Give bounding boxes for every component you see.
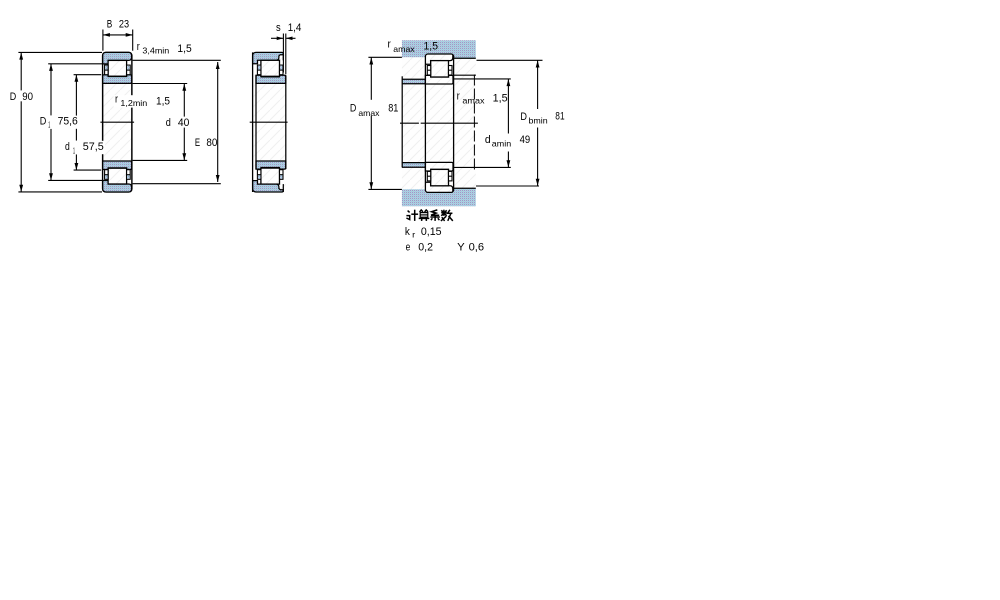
roller bottom bbox=[261, 168, 280, 184]
label damin 49 bbox=[484, 134, 513, 148]
svg-text:r: r bbox=[115, 93, 118, 105]
shaft shoulder face line bbox=[401, 76, 403, 167]
D arrows bbox=[19, 53, 23, 60]
inner ring top (blue) bbox=[256, 75, 286, 83]
svg-text:d: d bbox=[485, 134, 491, 146]
svg-text:B: B bbox=[107, 19, 113, 31]
svg-text:0,6: 0,6 bbox=[469, 241, 485, 253]
svg-text:r: r bbox=[137, 41, 140, 53]
label r1,2min 1,5 bbox=[114, 95, 172, 107]
d dim bbox=[183, 84, 185, 117]
svg-text:90: 90 bbox=[22, 91, 33, 103]
housing bottom band (blue) bbox=[402, 188, 476, 206]
svg-text:3,4min: 3,4min bbox=[142, 45, 169, 55]
D1 dim bbox=[50, 64, 52, 116]
svg-text:57,5: 57,5 bbox=[83, 141, 104, 153]
svg-text:81: 81 bbox=[555, 111, 564, 123]
svg-text:1: 1 bbox=[48, 120, 50, 130]
cage boxes bottom bbox=[257, 170, 261, 180]
label d1 57,5 bbox=[64, 141, 105, 154]
svg-text:40: 40 bbox=[178, 117, 190, 129]
Damax bbox=[370, 58, 372, 100]
svg-text:49: 49 bbox=[520, 134, 531, 146]
svg-text:Y: Y bbox=[457, 241, 465, 253]
svg-text:1,5: 1,5 bbox=[424, 41, 439, 53]
D dim bbox=[20, 53, 22, 91]
d1 dim bbox=[75, 75, 77, 141]
roller bottom bbox=[431, 169, 449, 185]
svg-text:D: D bbox=[40, 115, 47, 127]
char 计 bbox=[406, 210, 418, 221]
block hatch background bbox=[402, 40, 476, 206]
shaft shoulder strip top (blue) bbox=[402, 79, 426, 84]
body side edges reinforced bbox=[102, 55, 104, 189]
face lines bbox=[252, 52, 254, 192]
rolling space white bands bbox=[103, 60, 131, 76]
svg-text:D: D bbox=[10, 91, 17, 103]
cage boxes bottom bbox=[105, 170, 109, 180]
inner ring top outline bbox=[425, 75, 453, 84]
roller top bbox=[108, 60, 127, 76]
svg-text:amax: amax bbox=[393, 44, 415, 54]
roller bottom bbox=[108, 168, 127, 184]
svg-text:amin: amin bbox=[492, 139, 512, 149]
svg-text:23: 23 bbox=[119, 19, 129, 31]
cage boxes bottom bbox=[427, 171, 430, 181]
svg-text:1,5: 1,5 bbox=[156, 96, 170, 108]
roller top bbox=[431, 61, 449, 77]
svg-text:E: E bbox=[195, 137, 200, 149]
计算系数 (calculation factors) drawn as strokes bbox=[406, 210, 452, 221]
D1 arrows bbox=[49, 64, 53, 71]
svg-text:75,6: 75,6 bbox=[58, 116, 78, 128]
inner ring bottom outline bbox=[425, 162, 453, 171]
roller top bbox=[261, 60, 280, 76]
outer ring bottom outline bbox=[425, 182, 452, 192]
rolling space white bands bbox=[253, 60, 286, 75]
svg-text:bmin: bmin bbox=[529, 115, 548, 125]
Damax arrows bbox=[369, 58, 373, 65]
centerline (with gap) bbox=[400, 122, 419, 124]
svg-text:1,2min: 1,2min bbox=[120, 98, 147, 108]
svg-text:0,2: 0,2 bbox=[418, 241, 433, 253]
svg-text:1,5: 1,5 bbox=[177, 43, 191, 55]
bearing body bbox=[103, 52, 132, 192]
Dbmin bbox=[537, 61, 539, 110]
outer ring top outline bbox=[425, 54, 452, 64]
d arrows bbox=[182, 84, 186, 91]
inner ring top (blue) bbox=[103, 75, 132, 84]
label Dbmin 81 bbox=[519, 111, 548, 125]
svg-text:1,4: 1,4 bbox=[288, 22, 302, 34]
label D 90 bbox=[8, 91, 36, 102]
damin arrows bbox=[507, 79, 511, 86]
inner ring bottom (blue) bbox=[103, 161, 132, 170]
svg-text:d: d bbox=[65, 141, 70, 153]
cage boxes top bbox=[427, 66, 430, 76]
svg-text:D: D bbox=[350, 103, 357, 115]
outer ring bottom (blue) bbox=[253, 181, 284, 192]
char 数 bbox=[441, 210, 453, 221]
svg-text:s: s bbox=[276, 22, 281, 34]
svg-text:amax: amax bbox=[358, 108, 380, 118]
B arrows bbox=[103, 33, 110, 37]
svg-text:1,5: 1,5 bbox=[493, 92, 508, 104]
short ext at inner shoulder level bbox=[454, 74, 476, 76]
svg-text:r: r bbox=[412, 229, 415, 239]
body texture bbox=[253, 52, 286, 192]
E arrows bbox=[216, 62, 220, 69]
cage boxes top bbox=[257, 65, 261, 75]
svg-text:d: d bbox=[166, 117, 171, 129]
svg-text:1: 1 bbox=[73, 145, 75, 155]
s dimension bbox=[271, 34, 296, 75]
svg-text:k: k bbox=[405, 226, 410, 238]
Dbmin arrows bbox=[536, 61, 540, 68]
inner ring bottom (blue) bbox=[256, 161, 286, 169]
housing top band (blue) bbox=[402, 40, 476, 58]
svg-text:e: e bbox=[406, 241, 411, 253]
centerline bbox=[250, 121, 288, 123]
B dim bbox=[102, 30, 104, 51]
svg-text:81: 81 bbox=[388, 103, 398, 115]
svg-text:0,15: 0,15 bbox=[421, 226, 442, 238]
right figure dimensions bbox=[368, 57, 542, 189]
d1 arrows bbox=[75, 75, 79, 82]
shaft shoulder strip bottom (blue) bbox=[402, 163, 426, 168]
left figure dimensions bbox=[18, 30, 220, 192]
outer ring top (blue) bbox=[253, 52, 284, 63]
cage boxes top bbox=[105, 65, 109, 75]
svg-text:D: D bbox=[520, 111, 527, 123]
outer ring top (blue) bbox=[103, 52, 132, 64]
char 系 bbox=[430, 210, 439, 221]
centerline bbox=[100, 121, 134, 123]
svg-text:amax: amax bbox=[462, 96, 485, 106]
svg-text:r: r bbox=[388, 39, 392, 51]
svg-text:80: 80 bbox=[206, 137, 217, 149]
outer ring bottom (blue) bbox=[103, 181, 132, 193]
damin ext + line bbox=[454, 78, 511, 80]
svg-text:r: r bbox=[457, 91, 460, 103]
label D1 75,6 bbox=[39, 116, 80, 129]
char 算 bbox=[419, 210, 430, 221]
bearing outline body bbox=[425, 54, 453, 192]
E dim bbox=[217, 62, 219, 182]
dash-dot vertical bbox=[473, 75, 475, 170]
